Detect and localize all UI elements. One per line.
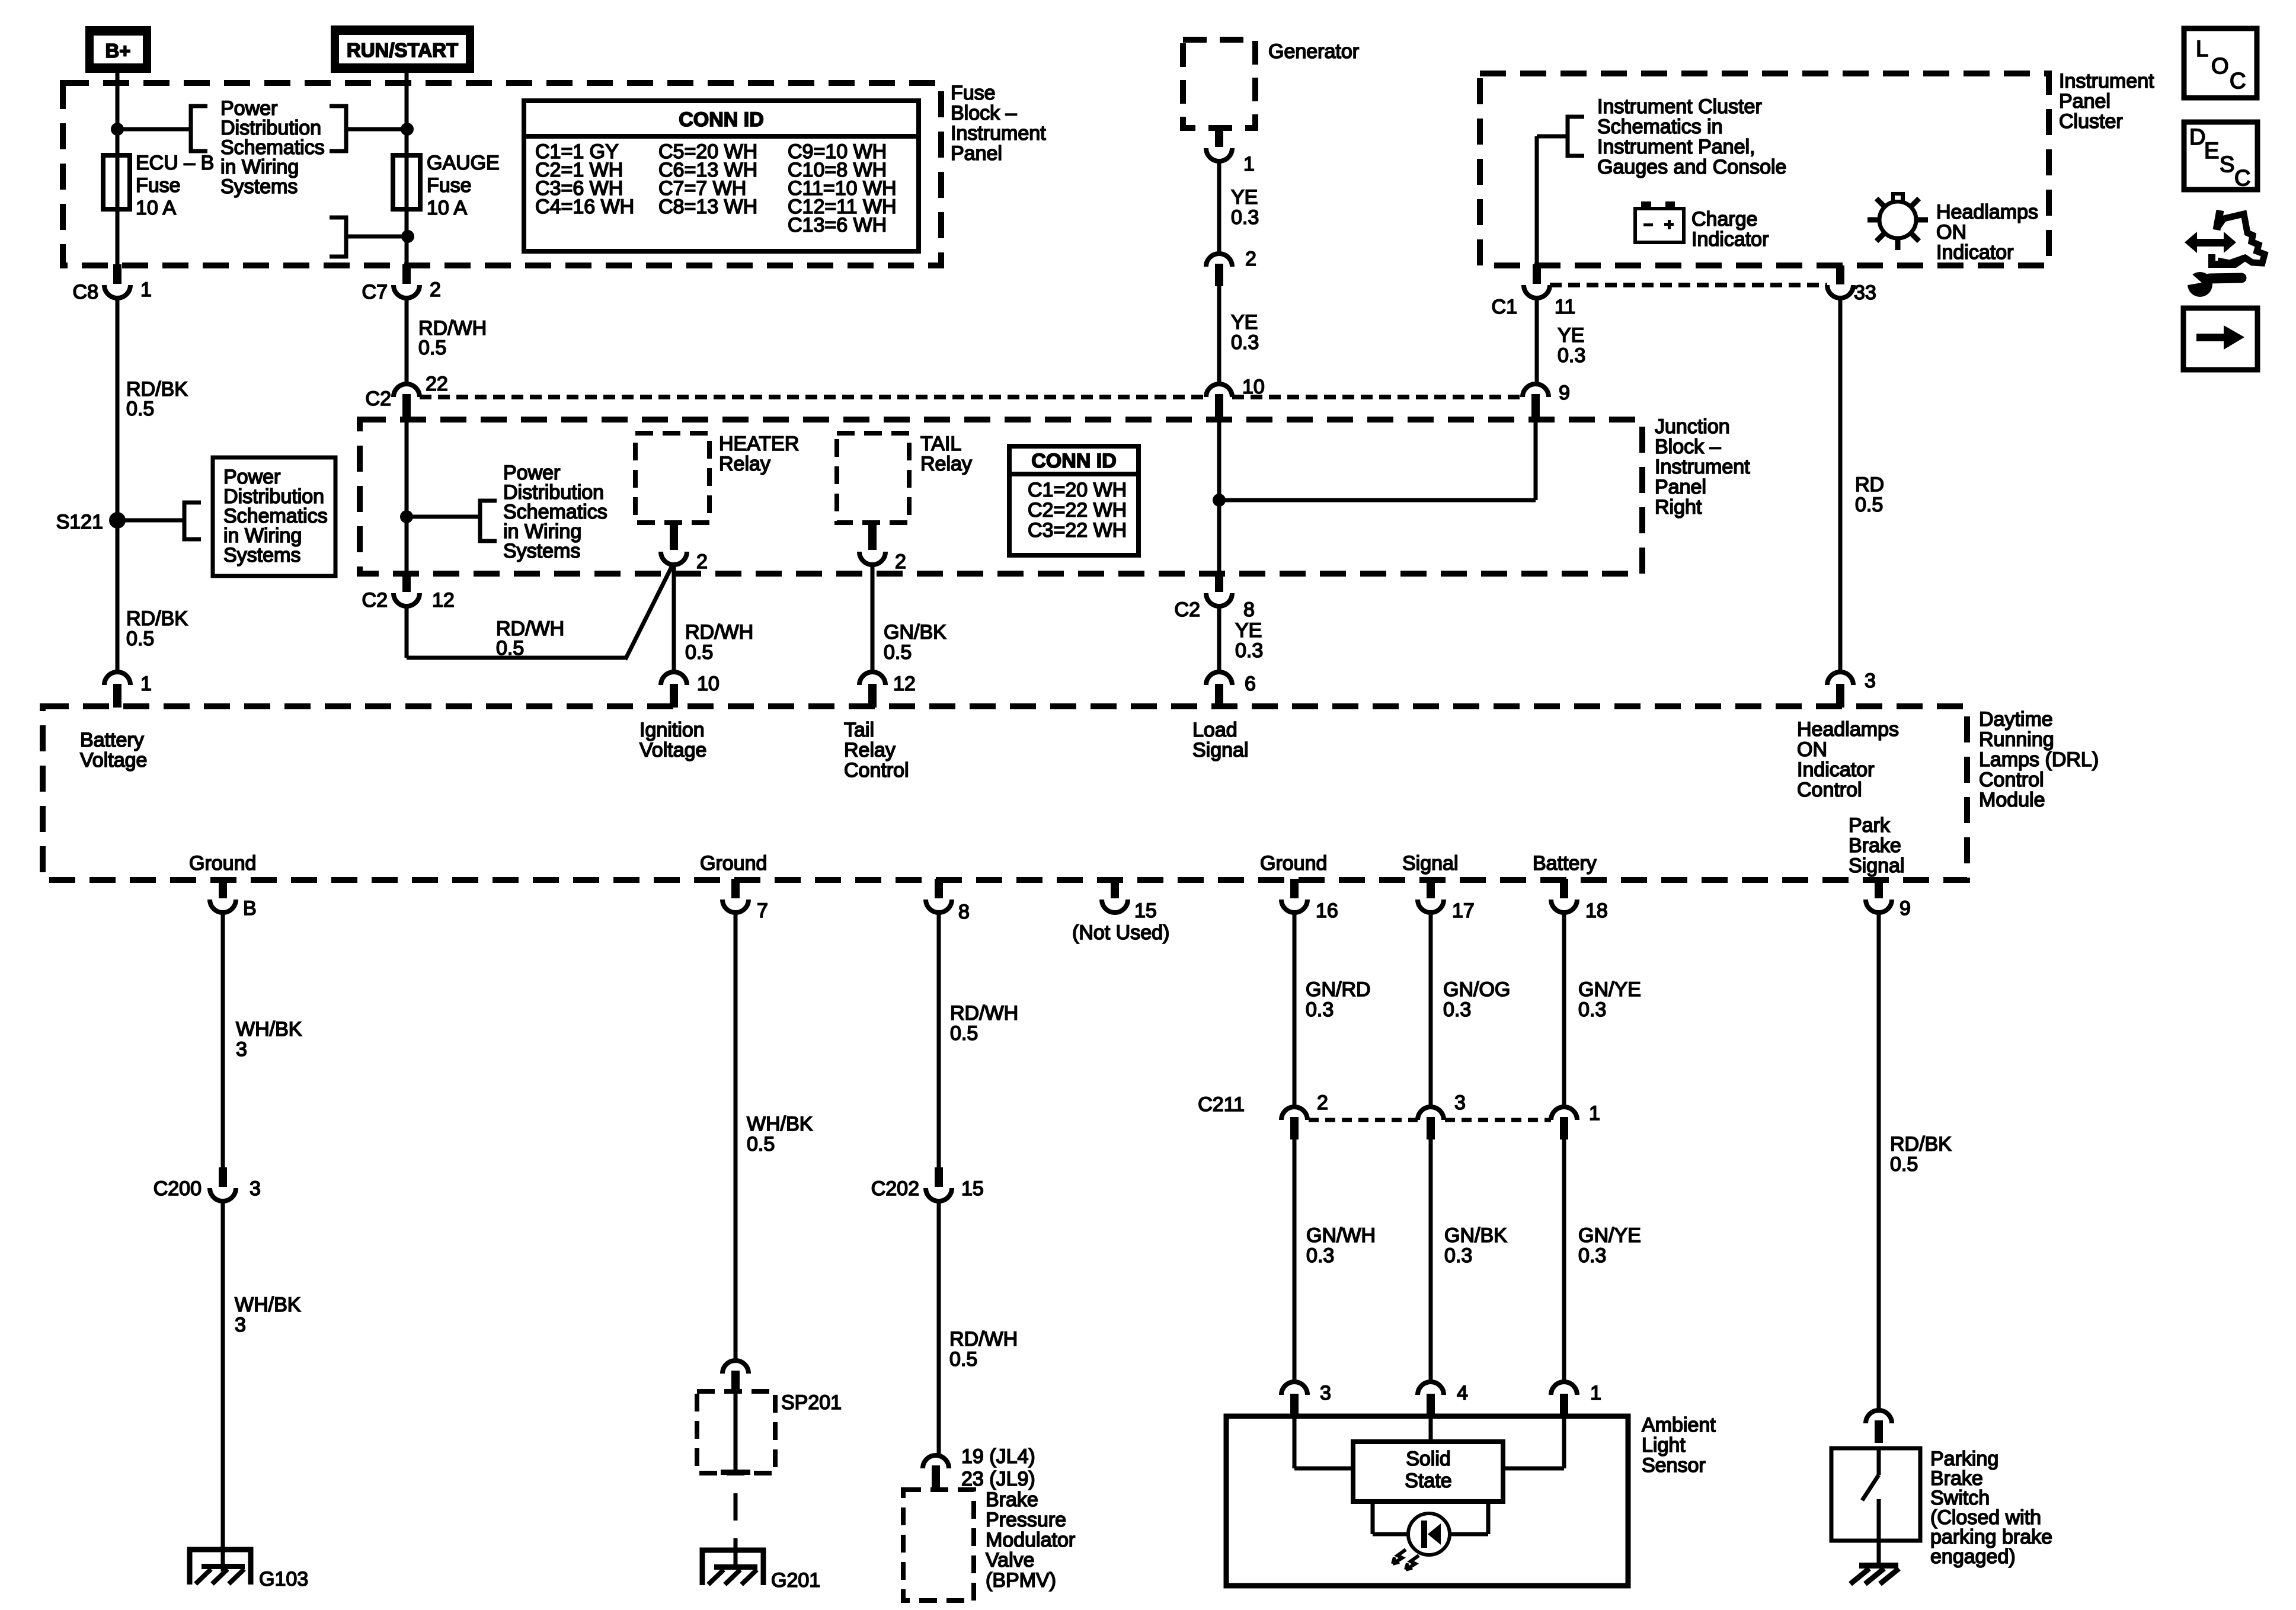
svg-text:RUN/START: RUN/START <box>347 39 458 61</box>
wire junction dot down to C2-8 <box>1217 500 1221 574</box>
wire battery voltage to pin 1 <box>116 520 120 673</box>
svg-text:Panel: Panel <box>1655 476 1706 498</box>
splice pack SP201 dashed box <box>697 1382 842 1475</box>
svg-text:0.5: 0.5 <box>949 1348 977 1371</box>
bracket callout S121 <box>184 502 201 539</box>
connector pin 10 (junction block) <box>1206 376 1265 422</box>
wire GN/OG 0.3 pin17 to C211-3 <box>1429 913 1433 1106</box>
ground parking brake switch <box>1850 1563 1899 1584</box>
svg-text:B: B <box>243 897 257 920</box>
svg-text:WH/BK: WH/BK <box>747 1113 813 1135</box>
label Signal <box>1402 852 1459 875</box>
wire RD 0.5 pin33 to pin3 <box>1838 298 1843 673</box>
CONN ID table (fuse block) <box>524 101 919 251</box>
svg-text:GN/YE: GN/YE <box>1578 978 1641 1001</box>
label RD/WH 0.5 (C7) <box>418 317 487 359</box>
svg-text:RD: RD <box>1855 473 1884 496</box>
svg-text:Control: Control <box>1979 769 2044 791</box>
svg-text:WH/BK: WH/BK <box>236 1018 302 1041</box>
svg-text:1: 1 <box>1590 1382 1601 1404</box>
svg-text:D: D <box>2189 125 2205 150</box>
svg-text:C13=6 WH: C13=6 WH <box>788 214 887 236</box>
svg-text:7: 7 <box>757 900 768 922</box>
label RD 0.5 <box>1855 473 1884 516</box>
svg-text:6: 6 <box>1245 673 1256 695</box>
wire generator into junction block <box>1217 421 1221 500</box>
svg-text:15: 15 <box>961 1177 984 1200</box>
svg-text:GN/WH: GN/WH <box>1306 1224 1376 1247</box>
svg-text:19 (JL4): 19 (JL4) <box>961 1445 1035 1468</box>
svg-text:4: 4 <box>1457 1382 1468 1404</box>
svg-text:0.3: 0.3 <box>1306 998 1334 1021</box>
label RD/WH 0.5 (elbow) <box>496 617 564 660</box>
svg-text:C1: C1 <box>1492 296 1517 318</box>
svg-text:Signal: Signal <box>1192 739 1249 761</box>
generator dashed box <box>1183 40 1255 128</box>
svg-text:RD/BK: RD/BK <box>1890 1133 1952 1156</box>
bracket callout lower (fuse block) <box>330 217 346 257</box>
wire RD/BK 0.5 from C8 <box>116 298 120 520</box>
wire junction dot to pin9 riser <box>1219 421 1536 500</box>
svg-text:RD/WH: RD/WH <box>950 1002 1018 1025</box>
svg-text:0.5: 0.5 <box>1890 1153 1918 1176</box>
LOC reference box <box>2184 28 2257 98</box>
svg-text:WH/BK: WH/BK <box>235 1294 301 1316</box>
wire sensor pin4 to solid state <box>1429 1416 1433 1442</box>
svg-text:C211: C211 <box>1198 1093 1245 1116</box>
svg-text:Modulator: Modulator <box>986 1529 1075 1551</box>
svg-text:Voltage: Voltage <box>80 749 147 772</box>
incident light arrows <box>1393 1550 1419 1570</box>
wire RD/WH elbow C2-12 to heater wire <box>407 566 672 660</box>
svg-text:1: 1 <box>1589 1102 1600 1125</box>
svg-text:Control: Control <box>1797 779 1862 801</box>
wire GN/YE 0.3 to sensor pin 1 <box>1562 1129 1566 1382</box>
wire RD/WH 0.5 to BPMV <box>937 1201 941 1455</box>
svg-text:Daytime: Daytime <box>1979 708 2053 731</box>
label RD/BK 0.5 (upper) <box>126 378 188 420</box>
connector C2 pin 8 <box>1175 572 1255 621</box>
svg-text:10 A: 10 A <box>427 197 467 219</box>
label Headlamps ON Indicator Control <box>1797 718 1899 801</box>
label Ground (pin 16) <box>1260 852 1327 875</box>
svg-text:3: 3 <box>1454 1092 1466 1114</box>
svg-text:0.5: 0.5 <box>685 641 713 664</box>
svg-text:Pressure: Pressure <box>986 1509 1066 1531</box>
svg-text:Lamps (DRL): Lamps (DRL) <box>1979 748 2099 771</box>
node junction dot S-junction block <box>400 510 413 523</box>
svg-text:0.5: 0.5 <box>126 398 154 420</box>
svg-text:Systems: Systems <box>223 544 300 566</box>
svg-text:SP201: SP201 <box>781 1391 842 1414</box>
svg-text:Load: Load <box>1192 719 1237 741</box>
ground G103 <box>190 1550 308 1590</box>
label Power Distribution Schematics (junction) <box>503 462 607 562</box>
svg-text:2: 2 <box>430 279 441 301</box>
svg-text:Solid: Solid <box>1406 1448 1451 1470</box>
svg-text:0.3: 0.3 <box>1231 206 1259 229</box>
label Fuse Block - Instrument Panel <box>951 82 1046 165</box>
label GN/RD 0.3 <box>1306 978 1371 1021</box>
label YE 0.3 (C1) <box>1558 324 1585 367</box>
connector splice pack inline <box>722 1361 749 1393</box>
svg-text:State: State <box>1405 1470 1451 1492</box>
svg-text:0.3: 0.3 <box>1578 1244 1606 1267</box>
connector module pin B ground <box>210 879 257 920</box>
svg-text:C8=13 WH: C8=13 WH <box>658 196 757 218</box>
node junction dot load signal <box>1213 494 1226 507</box>
svg-text:Instrument: Instrument <box>2059 70 2154 92</box>
svg-text:C4=16 WH: C4=16 WH <box>535 196 634 218</box>
connector module pin 8 <box>926 879 970 923</box>
svg-text:0.5: 0.5 <box>884 641 912 664</box>
bracket callout instrument cluster <box>1568 117 1584 156</box>
svg-text:Headlamps: Headlamps <box>1797 718 1899 741</box>
label Instrument Panel Cluster <box>2059 70 2154 133</box>
svg-text:G103: G103 <box>259 1568 308 1590</box>
label Battery <box>1533 852 1597 875</box>
svg-text:Junction: Junction <box>1655 415 1730 438</box>
wire heater pin2 to ignition voltage pin 10 <box>672 565 676 673</box>
svg-text:Sensor: Sensor <box>1642 1454 1706 1477</box>
svg-text:YE: YE <box>1235 619 1262 642</box>
photodiode LED symbol <box>1408 1513 1450 1555</box>
svg-text:Right: Right <box>1655 496 1702 518</box>
wire RD/WH 0.5 from C7 <box>405 298 409 384</box>
label ECU-B Fuse 10 A <box>136 152 214 219</box>
svg-text:C: C <box>2234 166 2250 191</box>
svg-text:GN/OG: GN/OG <box>1443 978 1510 1001</box>
node S121 splice <box>56 511 126 533</box>
DESC reference box <box>2184 122 2257 191</box>
svg-text:ECU – B: ECU – B <box>136 152 214 174</box>
connector C2 pin 12 <box>362 572 455 612</box>
svg-text:10: 10 <box>697 673 720 695</box>
label WH/BK 3 (lower) <box>235 1294 301 1336</box>
svg-text:Panel: Panel <box>951 142 1002 165</box>
connector module pin 12 tail relay <box>859 672 916 708</box>
svg-text:9: 9 <box>1900 897 1911 920</box>
wire right bracket to RUN/START wire <box>346 127 407 132</box>
wire YE 0.3 from C1-11 <box>1535 298 1539 384</box>
label RD/WH 0.5 (pin8) <box>950 1002 1018 1045</box>
svg-text:12: 12 <box>432 589 455 612</box>
svg-text:Block –: Block – <box>951 102 1017 124</box>
svg-text:3: 3 <box>1320 1382 1331 1404</box>
svg-text:0.5: 0.5 <box>1855 494 1883 516</box>
connector module pin 18 battery <box>1551 879 1608 922</box>
label GAUGE Fuse 10 A <box>427 152 500 219</box>
dotted line C211 3-1 <box>1445 1118 1551 1122</box>
connector C7 pin 2 <box>362 264 441 303</box>
ground G201 <box>702 1550 820 1592</box>
label Ignition Voltage <box>639 719 706 761</box>
node junction dot below GAUGE fuse <box>401 230 414 243</box>
label Headlamps ON Indicator <box>1936 201 2038 264</box>
svg-text:22: 22 <box>426 373 448 395</box>
connector C202 pin 15 <box>871 1167 984 1201</box>
connector generator pin 1 <box>1206 128 1255 175</box>
connector module pin 15 not used <box>1072 879 1169 944</box>
svg-text:Panel: Panel <box>2059 90 2110 113</box>
label Instrument Cluster Schematics <box>1597 95 1786 178</box>
label GN/BK 0.3 <box>1444 1224 1507 1267</box>
svg-text:12: 12 <box>893 673 916 695</box>
svg-text:Signal: Signal <box>1849 854 1905 877</box>
power feed RUN/START box <box>331 25 474 73</box>
arrow reference box <box>2183 308 2257 370</box>
label GN/OG 0.3 <box>1443 978 1510 1021</box>
svg-text:RD/WH: RD/WH <box>949 1328 1018 1350</box>
dotted line C211 2-3 <box>1309 1118 1418 1122</box>
label RD/BK 0.5 (park) <box>1890 1133 1952 1176</box>
junction block dashed box <box>360 420 1642 574</box>
fuse block dashed box <box>63 83 941 265</box>
wire lower bracket to wire <box>346 235 408 239</box>
svg-text:0.5: 0.5 <box>418 337 446 359</box>
BPMV dashed box <box>903 1490 974 1601</box>
connector C211 pin 3 <box>1418 1092 1466 1140</box>
wire YE 0.3 generator upper <box>1217 161 1221 253</box>
svg-text:Cluster: Cluster <box>2059 110 2123 133</box>
svg-text:YE: YE <box>1231 311 1258 334</box>
connector BPMV pins 19/23 <box>923 1445 1035 1490</box>
svg-text:Park: Park <box>1849 814 1891 837</box>
label WH/BK 3 (upper) <box>236 1018 302 1061</box>
wire WH/BK 3 to G103 <box>221 1201 225 1571</box>
connector C211 pin 1 <box>1551 1102 1600 1140</box>
svg-text:GN/RD: GN/RD <box>1306 978 1371 1001</box>
svg-text:1: 1 <box>1243 153 1255 175</box>
bracket callout left (power distribution) <box>191 106 207 151</box>
connector module pin 17 signal <box>1418 879 1475 922</box>
wire GN/BK 0.3 to sensor pin 4 <box>1429 1129 1433 1382</box>
dotted line pin11 to pin33 <box>1550 283 1827 287</box>
svg-text:2: 2 <box>895 550 906 573</box>
svg-text:0.3: 0.3 <box>1578 998 1606 1021</box>
svg-text:GN/YE: GN/YE <box>1578 1224 1641 1247</box>
instrument panel cluster dashed box <box>1480 73 2049 265</box>
svg-text:C200: C200 <box>154 1177 202 1200</box>
svg-text:C1=20 WH: C1=20 WH <box>1028 479 1127 501</box>
svg-text:Instrument Panel,: Instrument Panel, <box>1597 136 1755 158</box>
svg-text:3: 3 <box>236 1038 247 1061</box>
dotted line pin10 to pin9 <box>1232 395 1523 399</box>
svg-text:10 A: 10 A <box>136 197 176 219</box>
wire ECU-B fuse to C8 <box>116 209 120 265</box>
svg-text:Block –: Block – <box>1655 436 1721 458</box>
label TAIL Relay <box>920 433 972 475</box>
svg-text:Indicator: Indicator <box>1691 228 1769 251</box>
svg-text:C2: C2 <box>362 589 388 612</box>
connector module pin 9 park brake <box>1866 879 1911 920</box>
connector module pin 3 headlamps <box>1827 670 1876 708</box>
svg-text:Battery: Battery <box>1533 852 1597 875</box>
wire switch to ground <box>1877 1541 1881 1564</box>
wire junction dot to bracket <box>407 515 480 519</box>
power distribution schematics box (S121) <box>213 457 335 576</box>
connector tail relay pin 2 <box>859 521 906 573</box>
svg-text:GN/BK: GN/BK <box>1444 1224 1507 1247</box>
svg-text:0.5: 0.5 <box>747 1133 775 1156</box>
svg-text:C8: C8 <box>73 281 98 303</box>
svg-text:1: 1 <box>140 279 152 301</box>
connector C211 pin 2 <box>1198 1092 1328 1140</box>
connector pin 33 <box>1827 265 1876 304</box>
svg-text:Brake: Brake <box>1849 834 1901 857</box>
svg-text:Headlamps: Headlamps <box>1936 201 2038 223</box>
svg-text:8: 8 <box>1243 598 1255 621</box>
svg-text:15: 15 <box>1134 900 1157 922</box>
label YE 0.3 (gen upper) <box>1231 186 1259 229</box>
svg-text:0.3: 0.3 <box>1235 639 1263 662</box>
label Power Distribution Schematics in Wiring Systems (top) <box>220 97 325 198</box>
wire sensor pin3 to solid state <box>1294 1416 1353 1468</box>
svg-text:Relay: Relay <box>844 739 896 761</box>
svg-text:0.5: 0.5 <box>950 1022 978 1045</box>
svg-text:S121: S121 <box>56 511 103 533</box>
label Tail Relay Control <box>844 719 909 782</box>
wire sensor pin1 to solid state <box>1503 1416 1564 1468</box>
label GN/WH 0.3 <box>1306 1224 1376 1267</box>
svg-text:C: C <box>2230 69 2246 94</box>
wire dashed SP201 to G201 <box>734 1493 738 1564</box>
label YE 0.3 (load signal) <box>1235 619 1263 662</box>
svg-text:GN/BK: GN/BK <box>884 621 946 644</box>
label Park Brake Signal <box>1849 814 1905 877</box>
fuse ECU-B 10A <box>103 155 130 209</box>
svg-text:23 (JL9): 23 (JL9) <box>961 1468 1035 1490</box>
relay HEATER dashed box <box>635 433 709 523</box>
label Load Signal <box>1192 719 1249 761</box>
label Ambient Light Sensor <box>1642 1414 1716 1477</box>
dotted line pin22 to pin10 <box>420 395 1206 399</box>
svg-text:B+: B+ <box>105 40 130 62</box>
svg-text:11: 11 <box>1555 296 1575 318</box>
svg-text:Relay: Relay <box>920 453 972 475</box>
svg-text:C2: C2 <box>1175 598 1200 621</box>
wire WH/BK 3 pin B to C200 <box>221 913 225 1169</box>
DRL control module dashed box <box>43 706 1967 880</box>
svg-text:2: 2 <box>1245 248 1256 270</box>
svg-text:Signal: Signal <box>1402 852 1459 875</box>
label Ground (pin 7) <box>700 852 767 875</box>
svg-text:0.3: 0.3 <box>1306 1244 1334 1267</box>
svg-text:Battery: Battery <box>80 729 144 751</box>
connector C1 pin 11 <box>1492 264 1576 318</box>
svg-text:Systems: Systems <box>220 175 298 198</box>
svg-text:ON: ON <box>1797 738 1827 761</box>
svg-text:33: 33 <box>1854 281 1876 304</box>
label Generator <box>1268 40 1359 63</box>
svg-text:(BPMV): (BPMV) <box>986 1569 1056 1592</box>
svg-text:Voltage: Voltage <box>639 739 706 761</box>
svg-text:Light: Light <box>1642 1434 1686 1457</box>
parking brake switch box <box>1831 1448 1920 1541</box>
svg-text:YE: YE <box>1231 186 1258 209</box>
fuse GAUGE 10A <box>393 155 420 209</box>
svg-text:Module: Module <box>1979 789 2045 811</box>
svg-text:Instrument Cluster: Instrument Cluster <box>1597 95 1762 118</box>
wire RUN/START to GAUGE fuse <box>405 73 409 155</box>
service icon (arrows, outline, wrench) <box>2185 210 2265 297</box>
svg-text:Running: Running <box>1979 728 2054 751</box>
svg-text:Charge: Charge <box>1691 208 1758 231</box>
connector sensor pin 1 <box>1551 1382 1601 1417</box>
svg-text:0.3: 0.3 <box>1558 344 1585 367</box>
wire YE 0.3 generator lower <box>1217 276 1221 384</box>
svg-text:O: O <box>2211 54 2229 79</box>
svg-text:1: 1 <box>140 673 152 695</box>
svg-text:3: 3 <box>1865 670 1876 692</box>
svg-text:17: 17 <box>1452 900 1475 922</box>
svg-text:Ambient: Ambient <box>1642 1414 1716 1436</box>
svg-text:Generator: Generator <box>1268 40 1359 63</box>
svg-text:2: 2 <box>696 550 708 573</box>
label RD/WH 0.5 (BPMV) <box>949 1328 1018 1371</box>
svg-text:ON: ON <box>1936 221 1966 244</box>
svg-text:HEATER: HEATER <box>719 433 799 455</box>
svg-text:RD/WH: RD/WH <box>685 621 753 644</box>
connector pin 9 (junction block) <box>1523 382 1570 422</box>
svg-text:E: E <box>2204 139 2219 164</box>
label GN/BK 0.5 <box>884 621 946 664</box>
wire photodiode loop <box>1373 1502 1488 1534</box>
connector generator pin 2 <box>1206 248 1256 286</box>
label HEATER Relay <box>719 433 799 475</box>
svg-text:Schematics in: Schematics in <box>1597 116 1723 138</box>
svg-text:8: 8 <box>958 901 970 923</box>
wire C2-22 into junction block <box>405 415 409 517</box>
svg-text:Fuse: Fuse <box>427 174 472 197</box>
node junction dot on RUN/START wire <box>401 123 414 136</box>
svg-text:0.3: 0.3 <box>1444 1244 1472 1267</box>
label Daytime Running Lamps (DRL) Control Module <box>1979 708 2099 811</box>
svg-text:Fuse: Fuse <box>136 174 181 197</box>
wire junction dot down to C2-12 <box>405 517 409 574</box>
svg-text:G201: G201 <box>771 1569 820 1592</box>
svg-text:Instrument: Instrument <box>951 122 1046 145</box>
label RD/WH 0.5 (ignition) <box>685 621 753 664</box>
connector module pin 7 ground <box>722 879 768 922</box>
wire WH/BK 0.5 pin7 down <box>734 913 738 1360</box>
svg-text:C202: C202 <box>871 1177 919 1200</box>
svg-text:Ground: Ground <box>189 852 256 875</box>
svg-text:Relay: Relay <box>719 453 770 475</box>
svg-text:CONN ID: CONN ID <box>679 108 764 131</box>
svg-text:Indicator: Indicator <box>1797 758 1874 781</box>
connector C8 pin 1 <box>73 264 152 303</box>
svg-text:C7: C7 <box>362 281 388 303</box>
connector C200 pin 3 <box>154 1167 261 1201</box>
svg-text:C2: C2 <box>366 388 391 410</box>
wire S121 to schematics box <box>117 518 184 523</box>
wire GN/YE 0.3 pin18 to C211-1 <box>1562 913 1566 1106</box>
headlamps ON indicator lamp icon <box>1868 192 1928 250</box>
bracket callout right (power distribution) <box>330 106 346 151</box>
label GN/YE 0.3 (lower) <box>1578 1224 1641 1267</box>
svg-text:Instrument: Instrument <box>1655 456 1750 478</box>
svg-text:Valve: Valve <box>986 1549 1035 1571</box>
ambient light sensor box <box>1226 1416 1628 1586</box>
wire B+ to fuse ECU-B <box>116 73 120 155</box>
svg-text:YE: YE <box>1558 324 1584 347</box>
svg-text:Gauges and Console: Gauges and Console <box>1597 156 1786 178</box>
svg-text:Ground: Ground <box>700 852 767 875</box>
label Battery Voltage <box>80 729 147 772</box>
label Parking Brake Switch <box>1930 1448 2052 1568</box>
label Charge Indicator <box>1691 208 1769 251</box>
